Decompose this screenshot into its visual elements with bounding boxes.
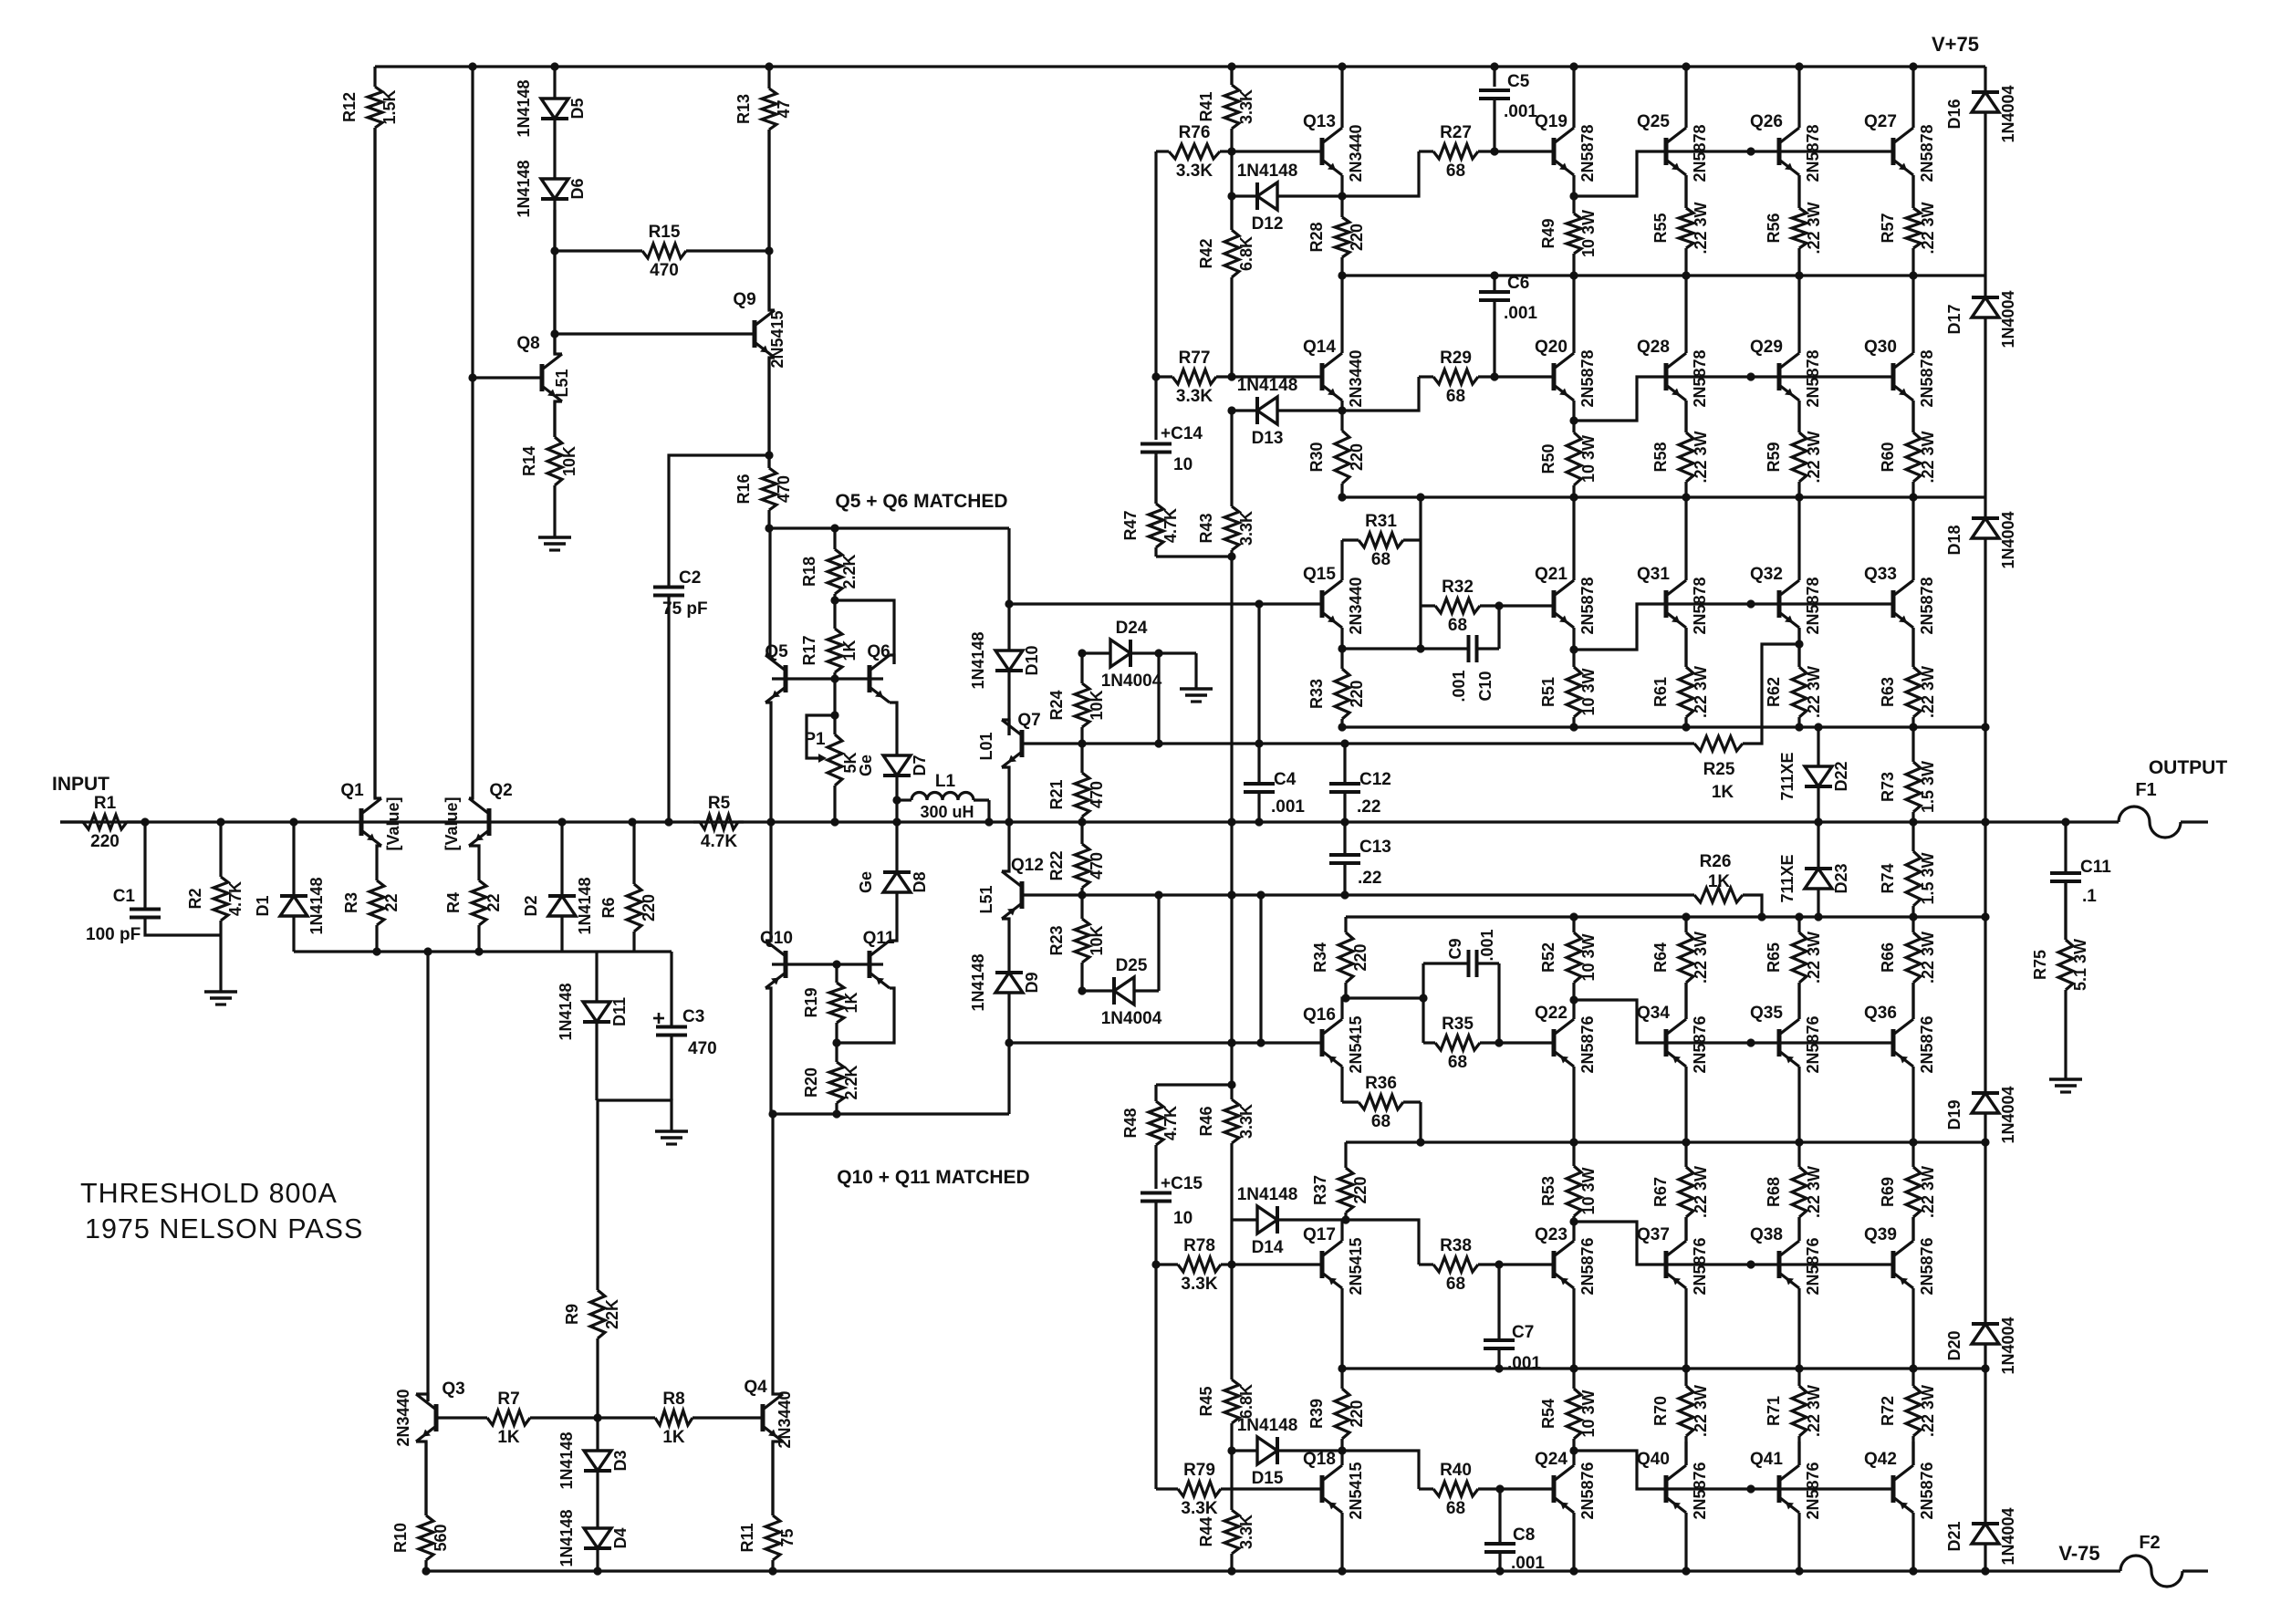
- svg-text:Q10 + Q11 MATCHED: Q10 + Q11 MATCHED: [837, 1167, 1029, 1188]
- svg-text:Q2: Q2: [489, 781, 512, 800]
- wire Q36 collector to bus5: [1911, 1067, 1914, 1142]
- svg-text:R46: R46: [1197, 1106, 1215, 1136]
- transistor Q38: [1750, 1225, 1822, 1296]
- wire C5 to row1 line: [1493, 99, 1495, 151]
- svg-text:1N4004: 1N4004: [1999, 290, 2017, 348]
- transistor Q3: [394, 1379, 465, 1447]
- wire Q7 base line: [1022, 742, 1694, 744]
- node lowerbus-R3: [372, 947, 380, 955]
- resistor R40: [1419, 1461, 1554, 1518]
- svg-text:R13: R13: [734, 94, 753, 124]
- resistor R66: [1879, 917, 1937, 1019]
- svg-text:2N3440: 2N3440: [1347, 577, 1365, 634]
- node biascol-row2: [1227, 372, 1235, 380]
- node rail-Q19col: [1569, 62, 1578, 70]
- wire C13 column: [1343, 822, 1346, 855]
- resistor R31: [1342, 512, 1421, 569]
- transistor Q28: [1637, 338, 1709, 408]
- wire Q2 emitter to R4: [469, 846, 479, 849]
- wire rowD base line: [1009, 1041, 1322, 1044]
- wire C11 to R75: [2064, 881, 2067, 940]
- svg-text:R36: R36: [1365, 1074, 1397, 1093]
- diode D20 symbol: [1945, 1317, 2017, 1374]
- svg-text:5.1 3W: 5.1 3W: [2071, 939, 2089, 991]
- svg-text:D18: D18: [1945, 525, 1963, 555]
- svg-text:R23: R23: [1047, 925, 1066, 955]
- node biascol-D12: [1227, 192, 1235, 200]
- svg-text:10K: 10K: [1088, 690, 1106, 720]
- svg-text:R14: R14: [520, 446, 538, 476]
- node biascol-R48corner: [1227, 1080, 1235, 1088]
- svg-text:.22 3W: .22 3W: [1805, 431, 1823, 483]
- wire Q3 emitter to R10: [416, 1442, 426, 1515]
- svg-text:Q25: Q25: [1637, 112, 1670, 131]
- svg-text:R57: R57: [1879, 213, 1897, 243]
- node main-Q5em: [766, 817, 775, 826]
- node 981-D25vert: [1154, 890, 1162, 899]
- wire Q14 base line: [1232, 375, 1322, 378]
- transistor Q16: [1303, 1005, 1365, 1074]
- node main-R2 junction: [216, 817, 224, 826]
- wire Q10 collector to tail: [766, 988, 771, 1114]
- resistor R23: [1047, 895, 1106, 991]
- svg-text:Q28: Q28: [1637, 338, 1670, 357]
- diode D11 symbol: [557, 983, 629, 1040]
- resistor R59: [1765, 401, 1823, 497]
- node Q22 emitter node: [1569, 995, 1578, 1004]
- svg-text:V-75: V-75: [2058, 1542, 2099, 1565]
- svg-text:Q18: Q18: [1303, 1450, 1336, 1469]
- resistor R51: [1539, 650, 1598, 727]
- wire C10 right vert: [1497, 606, 1500, 649]
- svg-text:220: 220: [1351, 1176, 1370, 1203]
- node 981-vert1382: [1256, 890, 1265, 899]
- svg-text:3.3K: 3.3K: [1176, 161, 1213, 181]
- node D7-L1 tap: [892, 796, 901, 804]
- svg-text:2N5876: 2N5876: [1578, 1462, 1597, 1519]
- transistor Q14: [1303, 338, 1365, 408]
- node main-D7col: [892, 817, 901, 826]
- node Q17 emitter node: [1341, 1215, 1349, 1223]
- wire D3-D4: [596, 1471, 599, 1528]
- svg-text:.22 3W: .22 3W: [1919, 932, 1937, 984]
- resistor R16: [734, 358, 793, 528]
- diode D1 symbol: [254, 877, 326, 934]
- svg-text:75: 75: [778, 1528, 797, 1546]
- resistor R41: [1197, 67, 1255, 151]
- wire Q36 emitter: [1911, 983, 1914, 1019]
- transistor Q22: [1535, 1004, 1597, 1074]
- svg-text:470: 470: [650, 261, 679, 280]
- svg-text:Q15: Q15: [1303, 565, 1336, 584]
- diode D24 line: [1082, 651, 1110, 654]
- resistor R74: [1879, 822, 1937, 917]
- node main-D23: [1814, 817, 1822, 826]
- svg-text:3.3K: 3.3K: [1181, 1275, 1217, 1294]
- diode D11: [595, 952, 598, 1002]
- transistor Q13: [1303, 112, 1365, 182]
- transistor Q9: [733, 290, 786, 369]
- wire Q10Q11 base line: [772, 963, 883, 965]
- node Q2col-Q8base: [468, 373, 476, 381]
- fuse F1: [2119, 780, 2181, 838]
- svg-text:C5: C5: [1507, 72, 1530, 91]
- wire D5-D6: [553, 119, 556, 179]
- resistor R54: [1539, 1369, 1598, 1451]
- node D24-vert: [1154, 649, 1162, 657]
- svg-text:R71: R71: [1765, 1396, 1783, 1426]
- svg-text:R60: R60: [1879, 442, 1897, 472]
- resistor R75: [2031, 881, 2089, 1079]
- diode D5 symbol: [515, 79, 587, 137]
- resistor R4: [444, 849, 503, 952]
- diode D23 lead: [1817, 822, 1819, 869]
- resistor R73: [1879, 727, 1937, 822]
- svg-text:2N5415: 2N5415: [1347, 1237, 1365, 1295]
- svg-text:+C15: +C15: [1161, 1174, 1203, 1193]
- capacitor C7: [1484, 1323, 1541, 1373]
- svg-text:R27: R27: [1440, 123, 1472, 142]
- wire left bias col top: [1154, 151, 1157, 440]
- wire C11 top: [2064, 822, 2067, 873]
- svg-text:R48: R48: [1121, 1108, 1140, 1138]
- wire D19 to bus5: [1984, 1113, 1986, 1142]
- node rail-rightbus: [1981, 1567, 1989, 1575]
- node lowerbus-R4: [474, 947, 483, 955]
- node bus2-1972: [1795, 493, 1803, 501]
- node rail-D4: [593, 1567, 601, 1575]
- svg-text:711XE: 711XE: [1778, 854, 1797, 902]
- wire output bus row D: [1346, 915, 1985, 918]
- node rail-C8: [1495, 1567, 1504, 1575]
- wire Q33 emitter: [1911, 628, 1914, 667]
- svg-text:D11: D11: [610, 997, 629, 1026]
- diode D14 line right: [1277, 1218, 1342, 1221]
- wire Q9 base line: [555, 332, 755, 335]
- wire R26 link: [1743, 895, 1762, 917]
- node main-R73: [1909, 817, 1917, 826]
- svg-text:3.3K: 3.3K: [1181, 1499, 1217, 1518]
- wire Q18 collector to rail: [1340, 1513, 1343, 1571]
- resistor R39: [1307, 1369, 1366, 1451]
- wire Q1 emitter to R3: [377, 846, 381, 849]
- resistor R18: [800, 528, 859, 600]
- svg-text:Q5 + Q6 MATCHED: Q5 + Q6 MATCHED: [835, 491, 1007, 512]
- resistor R9: [563, 1100, 621, 1418]
- wire Q42 collector to rail: [1911, 1513, 1914, 1571]
- svg-text:2N5878: 2N5878: [1804, 349, 1822, 407]
- svg-text:2N5878: 2N5878: [1578, 577, 1597, 634]
- node bus3-1725: [1569, 723, 1578, 731]
- svg-text:R30: R30: [1307, 442, 1326, 472]
- diode D15 line right: [1277, 1449, 1342, 1452]
- wire Q34 collector to bus5: [1684, 1067, 1687, 1142]
- svg-text:2N3440: 2N3440: [394, 1389, 412, 1446]
- node bus5-1972: [1795, 1138, 1803, 1146]
- node biascol-D15: [1227, 1446, 1235, 1454]
- transistor Q42: [1864, 1450, 1936, 1520]
- diode D4 symbol: [557, 1509, 630, 1567]
- transistor Q2: [443, 781, 513, 851]
- transistor Q27: [1864, 112, 1936, 182]
- svg-text:2N5876: 2N5876: [1691, 1462, 1709, 1519]
- resistor R34: [1311, 917, 1370, 998]
- svg-text:1N4148: 1N4148: [1237, 376, 1298, 395]
- wire main output/feedback bus: [60, 820, 2119, 823]
- wire C8 top: [1498, 1489, 1501, 1544]
- svg-text:R15: R15: [649, 223, 681, 242]
- svg-text:C13: C13: [1359, 838, 1391, 857]
- svg-text:2N5878: 2N5878: [1691, 349, 1709, 407]
- capacitor C10: [1469, 635, 1477, 662]
- resistor R70: [1651, 1369, 1710, 1465]
- svg-text:4.7K: 4.7K: [701, 832, 737, 851]
- transistor Q41: [1750, 1450, 1822, 1520]
- resistor R52: [1539, 917, 1598, 1000]
- node bus1-1638: [1490, 271, 1498, 279]
- wire Q29 collector to bus1: [1797, 276, 1800, 353]
- svg-text:2.2K: 2.2K: [840, 554, 859, 588]
- diode D14 symbol: [1237, 1185, 1298, 1257]
- svg-text:1N4148: 1N4148: [1237, 1416, 1298, 1435]
- svg-text:R2: R2: [186, 888, 204, 909]
- wire Q23 emitter node: [1572, 1222, 1575, 1241]
- svg-text:Q17: Q17: [1303, 1225, 1336, 1244]
- wire bias col 166-215: [1230, 151, 1233, 230]
- svg-text:C2: C2: [679, 568, 701, 588]
- node bus4-1993: [1814, 912, 1822, 921]
- transistor Q10: [760, 929, 793, 988]
- wire C9R35 feed: [1346, 996, 1423, 999]
- node biascol-981: [1227, 890, 1235, 899]
- svg-text:R54: R54: [1539, 1399, 1557, 1429]
- diode D14 line: [1232, 1218, 1257, 1221]
- diode D17 lead: [1984, 276, 1986, 297]
- wire C9R35 left vert: [1422, 963, 1424, 1043]
- svg-text:1K: 1K: [842, 992, 860, 1013]
- node 662-C4: [1255, 599, 1263, 608]
- svg-text:[Value]: [Value]: [443, 796, 461, 850]
- svg-text:V+75: V+75: [1932, 33, 1979, 56]
- node R24top-D24: [1078, 649, 1086, 657]
- inductor L1: [897, 772, 989, 822]
- wire rowF output base elbow: [1574, 1451, 1893, 1489]
- resistor R20: [802, 1043, 860, 1114]
- svg-text:R77: R77: [1179, 349, 1211, 368]
- transistor Q30: [1864, 338, 1936, 408]
- svg-text:D15: D15: [1252, 1469, 1284, 1488]
- svg-text:R32: R32: [1442, 578, 1474, 597]
- svg-text:2N5415: 2N5415: [1347, 1462, 1365, 1519]
- wire Q26 emitter: [1797, 175, 1800, 208]
- resistor R6: [599, 822, 658, 952]
- wire Q16 emitter to R34node: [1342, 998, 1346, 1019]
- svg-text:Q13: Q13: [1303, 112, 1336, 131]
- svg-text:68: 68: [1446, 1499, 1465, 1518]
- wire C10 right: [1477, 647, 1500, 650]
- node main-D22: [1814, 817, 1822, 826]
- transistor Q37: [1637, 1225, 1709, 1296]
- svg-text:3.3K: 3.3K: [1237, 1515, 1255, 1549]
- resistor R17: [800, 600, 859, 679]
- svg-text:3.3K: 3.3K: [1176, 387, 1213, 406]
- node rowD-biascol: [1227, 1038, 1235, 1046]
- svg-text:R53: R53: [1539, 1176, 1557, 1206]
- svg-text:68: 68: [1448, 616, 1467, 635]
- svg-text:D13: D13: [1252, 429, 1284, 448]
- resistor R11: [738, 1442, 797, 1571]
- svg-text:2N5876: 2N5876: [1918, 1462, 1936, 1519]
- wire Q38 emitter: [1797, 1217, 1800, 1241]
- diode D13 symbol: [1237, 376, 1298, 448]
- svg-text:Q37: Q37: [1637, 1225, 1670, 1244]
- wire C15 to R78 line: [1154, 1202, 1157, 1489]
- svg-text:5K: 5K: [841, 752, 859, 773]
- wire Q22 emitter node: [1572, 1000, 1575, 1019]
- wire C4 column: [1257, 604, 1260, 784]
- svg-text:C7: C7: [1512, 1323, 1534, 1342]
- svg-text:2N5415: 2N5415: [1347, 1015, 1365, 1073]
- wire C14 to R47: [1154, 453, 1157, 504]
- svg-text:F1: F1: [2135, 780, 2156, 800]
- fuse F2: [2120, 1533, 2182, 1587]
- svg-text:R45: R45: [1197, 1386, 1215, 1416]
- wire C7 bottom: [1497, 1348, 1500, 1369]
- wire R29 elbow: [1342, 377, 1419, 411]
- diode D25 line right: [1134, 989, 1159, 992]
- resistor R2: [186, 822, 245, 992]
- diode D8 symbol: [857, 871, 929, 893]
- wire Q11 collector jog: [837, 988, 894, 1043]
- diode D22 lead: [1817, 727, 1819, 766]
- resistor R29: [1419, 349, 1554, 406]
- wire C2 to main: [667, 596, 670, 822]
- resistor R5: [693, 794, 744, 851]
- svg-text:2N5878: 2N5878: [1691, 124, 1709, 182]
- resistor R8: [598, 1390, 763, 1447]
- svg-text:1K: 1K: [1712, 783, 1734, 802]
- node bus4-1931: [1757, 912, 1765, 921]
- diode D25 line: [1082, 989, 1114, 992]
- wire Q5 collector: [766, 528, 770, 655]
- wire V+75 rail: [375, 65, 1985, 68]
- svg-text:1K: 1K: [497, 1428, 520, 1447]
- svg-text:Q32: Q32: [1750, 565, 1783, 584]
- svg-text:R42: R42: [1197, 238, 1215, 268]
- wire Q24 emitter node: [1572, 1451, 1575, 1465]
- svg-text:.22 3W: .22 3W: [1692, 202, 1710, 254]
- transistor Q40: [1637, 1450, 1709, 1520]
- wire Q4 collector to tail bus: [773, 1114, 783, 1394]
- svg-text:3.3K: 3.3K: [1237, 89, 1255, 124]
- svg-text:Q23: Q23: [1535, 1225, 1568, 1244]
- node bus1-1725: [1569, 271, 1578, 279]
- node rail-Q40col: [1682, 1567, 1690, 1575]
- svg-text:.22 3W: .22 3W: [1805, 1385, 1823, 1437]
- resistor R46: [1197, 1085, 1255, 1265]
- svg-text:R5: R5: [708, 794, 731, 813]
- svg-text:R26: R26: [1700, 852, 1732, 871]
- capacitor C14: [1140, 424, 1203, 474]
- wire diff collector line: [769, 526, 1009, 529]
- wire R32 to Q21: [1499, 604, 1554, 607]
- wire D17 to bus2: [1984, 318, 1986, 497]
- resistor R57: [1879, 175, 1937, 276]
- node R29-C6: [1490, 372, 1498, 380]
- capacitor C8: [1484, 1525, 1545, 1573]
- svg-text:1N4148: 1N4148: [557, 1509, 576, 1567]
- resistor R15: [555, 223, 769, 280]
- wire Q27 collector to rail: [1911, 67, 1914, 128]
- wire emitter bus row3: [1342, 725, 1985, 728]
- resistor R28: [1307, 196, 1366, 276]
- node rail-D5col: [550, 62, 558, 70]
- wire D10 to Q7 collector: [1007, 671, 1010, 735]
- wire C3 top: [670, 952, 672, 1027]
- svg-text:C3: C3: [682, 1007, 704, 1026]
- svg-text:Q36: Q36: [1864, 1004, 1897, 1023]
- svg-text:10 3W: 10 3W: [1579, 668, 1598, 715]
- wire Q25 collector to rail: [1684, 67, 1687, 128]
- node main-C4: [1255, 817, 1263, 826]
- wire Q35 emitter: [1797, 983, 1800, 1019]
- diode D12 symbol: [1237, 161, 1298, 234]
- wire Q8 collector to D6 column: [555, 210, 562, 354]
- ground R75: [2049, 1079, 2082, 1092]
- diode D10 symbol: [969, 631, 1041, 689]
- wire Q14 collector to bus1: [1340, 276, 1343, 353]
- wire Q37 emitter: [1684, 1217, 1687, 1241]
- wire Q32 collector to bus2: [1797, 497, 1800, 580]
- svg-text:Q39: Q39: [1864, 1225, 1897, 1244]
- svg-text:D12: D12: [1252, 214, 1284, 234]
- capacitor C3: [653, 1007, 717, 1058]
- diode D24 symbol: [1101, 619, 1162, 691]
- node 815-C12: [1340, 739, 1349, 747]
- svg-text:300 uH: 300 uH: [920, 803, 974, 821]
- svg-text:68: 68: [1371, 1112, 1390, 1131]
- wire Q24 collector to rail: [1572, 1513, 1575, 1571]
- node biascol-main: [1227, 817, 1235, 826]
- svg-text:R59: R59: [1765, 442, 1783, 472]
- ground R2: [204, 992, 237, 1005]
- node diffline-R18: [830, 524, 838, 532]
- node Q32 emitter node: [1795, 640, 1803, 648]
- node bus6-1471: [1338, 1364, 1346, 1372]
- svg-text:1N4004: 1N4004: [1999, 1507, 2017, 1565]
- diode D7 symbol: [857, 755, 929, 776]
- transistor Q19: [1535, 112, 1597, 182]
- svg-text:Q1: Q1: [340, 781, 364, 800]
- svg-text:10: 10: [1173, 455, 1193, 474]
- svg-text:R25: R25: [1703, 760, 1735, 779]
- node row2 baseline dot: [1746, 372, 1755, 380]
- ground R14: [538, 537, 571, 550]
- wire Q4 emitter to R11: [773, 1442, 783, 1515]
- resistor R49: [1539, 196, 1598, 276]
- svg-text:R76: R76: [1179, 123, 1211, 142]
- resistor R43: [1197, 411, 1255, 557]
- resistor R79: [1156, 1461, 1232, 1518]
- svg-text:R38: R38: [1440, 1236, 1472, 1255]
- capacitor C11: [2050, 858, 2111, 906]
- svg-text:R78: R78: [1183, 1236, 1215, 1255]
- svg-text:2N3440: 2N3440: [776, 1390, 794, 1448]
- wire C12 to main: [1343, 792, 1346, 822]
- wire C9 right: [1477, 962, 1500, 964]
- wire D21 to rail: [1984, 1544, 1986, 1571]
- wire Q22 collector to bus5: [1572, 1067, 1575, 1142]
